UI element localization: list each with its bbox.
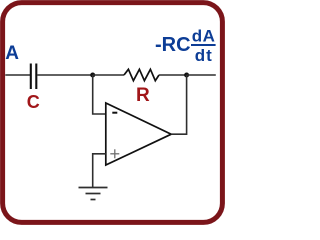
- op-amp U1 (triangle): [106, 103, 171, 165]
- svg-text:-RC: -RC: [155, 34, 191, 56]
- node label -RC dA/dt (output expression): [155, 27, 216, 65]
- resistor R: [124, 69, 159, 80]
- wire: junction to resistor: [93, 74, 124, 76]
- node: inverting input junction: [90, 73, 95, 78]
- wire: resistor to output junction: [159, 74, 187, 76]
- svg-text:R: R: [136, 85, 150, 106]
- wire: output junction to right edge: [187, 74, 216, 76]
- op-amp U1 inverting input marker (-): [112, 112, 117, 114]
- node: output junction: [184, 73, 189, 78]
- svg-text:dA: dA: [192, 27, 216, 46]
- svg-text:A: A: [5, 43, 19, 64]
- ground: [79, 188, 108, 200]
- capacitor C: [31, 64, 37, 90]
- wire: capacitor to inverting-node junction: [37, 74, 92, 76]
- svg-text:C: C: [27, 92, 40, 112]
- svg-text:dt: dt: [195, 46, 213, 65]
- wire: non-inverting input to ground: [93, 154, 106, 188]
- wire: input lead from left edge to capacitor: [5, 74, 30, 76]
- op-amp U1 non-inverting input marker (+): [110, 149, 119, 158]
- wire: op-amp output feedback up to output junction: [171, 75, 186, 134]
- wire: inverting input drop (junction down and into op-amp - input): [93, 75, 106, 114]
